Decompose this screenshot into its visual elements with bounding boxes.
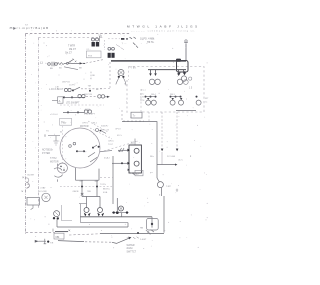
dashed diag to valve [100,141,138,152]
buzzer [54,211,60,217]
long diagonal wire [58,241,84,242]
fan contact cluster [96,129,99,132]
console note dashes [130,37,139,48]
agitate solenoid [119,206,124,211]
dashed wire to console [86,60,104,64]
main bus wire (thick) [111,60,186,62]
push-to-start switch [66,59,74,64]
small connector right of valve [131,173,135,175]
wires under motor [76,168,100,180]
timer bottom bus [176,110,196,112]
svg-text:41C.t: 41C.t [117,134,122,137]
svg-text:TB.TA.: TB.TA. [147,41,155,44]
arrowhead [80,62,83,64]
svg-text:T, .....: T, ..... [122,43,128,45]
wire into console left [105,96,107,98]
dashed divider [60,104,104,106]
connector interlink dashes [104,40,106,50]
timer drop wire 2 [176,112,178,149]
svg-text:TM: TM [88,85,91,87]
svg-text:5000F.r: 5000F.r [101,125,109,128]
svg-text:OB.1: OB.1 [92,122,98,124]
timer top bus [148,69,186,71]
bleach box [131,112,142,118]
dashed fan wire 2 [90,128,112,139]
svg-text:10.PO: 10.PO [69,85,75,87]
timer row2 labels [140,92,145,101]
svg-text:N.C-OFF: N.C-OFF [38,191,48,193]
bus junction bump [176,59,181,62]
timer drop wire 1 [161,112,163,149]
line cord plug [48,62,58,66]
svg-text:OAT.B: OAT.B [73,190,79,193]
svg-text:--------- schematic part listi: --------- schematic part listing sv. [131,29,195,32]
console light [116,70,126,86]
timer top contacts group2 [177,70,188,85]
svg-text:BU: BU [59,68,62,70]
svg-text:HB: HB [140,228,144,230]
switch mark [75,61,77,63]
lid switch circle [42,193,50,201]
header note left [14,24,48,31]
svg-text:MOTOR: MOTOR [50,162,59,164]
extra density labels [55,81,175,173]
plug P at top right [184,40,188,43]
pump contacts row [80,216,152,218]
svg-text:1-4.BT: 1-4.BT [140,239,147,241]
stub wire right of buzzer [62,205,73,221]
svg-text:TW.r: TW.r [61,122,66,125]
valve lower ticks [128,169,130,171]
pump motor 2 [97,208,104,217]
lower bus wire [57,226,128,228]
long wire down right [163,196,165,233]
junction mark [81,193,84,195]
lid switch box [27,197,39,205]
svg-text:3E.r: 3E.r [150,155,154,158]
svg-text:TOP.k: TOP.k [100,184,107,186]
row y=97 contacts [63,95,105,99]
belt dashed line [60,186,112,188]
console note text [140,37,155,44]
svg-text:Ort.C7: Ort.C7 [65,51,72,54]
ground [53,136,58,145]
tick right [176,189,178,192]
cabinet outer border (dashed) [26,34,132,235]
cabinet inner border (dashed) [39,38,104,209]
svg-text:CBt: CBt [55,236,59,239]
dashed BK wire [90,72,92,80]
timer top contacts group1 [149,70,160,85]
wire drop from plug P [185,43,187,60]
timer dashed box [129,67,205,113]
wire to switch [64,62,66,64]
timer motor circle [54,164,63,182]
valve stem [134,139,136,146]
bottom left arrow [35,240,46,242]
wire from console to valve area [122,122,157,178]
svg-text:T.HT.2: T.HT.2 [50,158,57,160]
protector contacts [178,73,186,76]
svg-text:10 PO. 4 MBt: 10 PO. 4 MBt [140,37,155,40]
pressure switch box right [147,218,159,230]
svg-text:1M.CT: 1M.CT [69,49,76,51]
bottom ground mark [44,239,47,244]
water level bus [100,232,164,234]
svg-text:LO.r: LO.r [140,92,145,95]
connector P1 [92,35,103,47]
console step dark dashes [121,38,124,40]
wire to unbalance switch [157,164,175,166]
console step dashes [108,38,120,40]
drive motor circle [60,128,100,168]
svg-text:SWTTCT: SWTTCT [127,251,137,253]
wire switch out [68,62,80,64]
lower double line [81,204,129,223]
lid switch marks [22,177,24,192]
svg-text:rO.10-4: rO.10-4 [50,113,58,116]
water valve box [129,145,141,173]
dashed bottom continue [69,234,100,235]
dispenser box right edge [148,112,150,122]
bottom border tick [52,229,54,232]
svg-text:CRU.r: CRU.r [108,140,114,143]
svg-text:CT.1: CT.1 [140,97,145,99]
wire below unbalance switch [161,188,163,196]
svg-text:T.r: T.r [133,115,136,118]
valve solenoid hot [118,148,139,153]
long vertical from valve area [112,156,114,204]
dashed stub [100,176,113,178]
svg-text:L.CO.3.BF.CT: L.CO.3.BF.CT [49,89,64,91]
svg-text:T-BT: T-BT [166,186,171,188]
svg-text:TO.P: TO.P [108,144,114,146]
svg-text:1M.PO4: 1M.PO4 [62,81,70,83]
svg-text:Pr.B: Pr.B [88,54,93,57]
svg-text:A: A [59,99,61,103]
wires to lower row [82,180,100,207]
svg-text:LTD.SW.BPT: LTD.SW.BPT [66,103,80,105]
pump motor 1 [84,208,91,217]
water temp switch box A [52,97,63,103]
svg-text:BK.R.C: BK.R.C [103,188,110,190]
svg-text:FTrTER: FTrTER [42,152,50,155]
unbalance switch [157,178,159,182]
svg-text:8 9 ..: 8 9 .. [87,49,92,51]
scan speckle [25,30,208,249]
svg-text:prt.mptTrBa|HB: prt.mptTrBa|HB [14,26,48,30]
bottom cluster box [54,233,64,239]
bottom solid segment [55,231,68,233]
small box TW [60,118,72,125]
row y=112 contacts [63,110,92,114]
dashed fan wire 1 [88,121,108,132]
svg-text:.4.5M: .4.5M [84,109,90,111]
console dashed outline left [100,62,127,115]
svg-text:rEVEr: rEVEr [127,247,133,250]
svg-text:T MTR: T MTR [68,46,75,48]
svg-text:4CA.: 4CA. [103,191,108,194]
svg-text:~T 8A.: ~T 8A. [130,67,137,70]
protector terminal circles [181,76,186,81]
svg-text:2C.1-B4: 2C.1-B4 [167,156,176,158]
svg-text:78B: 78B [87,191,91,193]
svg-text:J.C.(: J.C.( [141,90,146,92]
wire BK drop [64,67,78,70]
connector P2 [108,47,115,58]
svg-text:OPTO: OPTO [82,123,88,125]
svg-text:4CA.2: 4CA.2 [104,156,111,159]
timer row2 contacts [145,96,202,106]
svg-text:BU.WT: BU.WT [28,174,35,176]
motor start winding circle [57,163,67,173]
lid switch plunger arcs [26,178,29,189]
dispenser dashed box under timer [122,110,144,121]
svg-text:r.OAT: r.OAT [40,187,46,190]
svg-text:NOTSE.Br: NOTSE.Br [42,149,53,152]
svg-text:OP1O: OP1O [115,129,121,131]
row y=90 mid-left contacts [64,87,104,92]
svg-text:5.10.4.BPT: 5.10.4.BPT [84,114,96,116]
svg-text:L.BI: L.BI [55,86,59,88]
noise filter [48,135,60,137]
valve solenoid cold [112,161,139,166]
line cord resistor squiggle [57,63,63,65]
connector P1 shell [86,51,101,58]
svg-text:1M.POS: 1M.POS [84,94,92,96]
motor protector box [177,61,189,73]
svg-text:TU: TU [46,130,49,132]
svg-text:WATER: WATER [127,244,135,247]
header note left arrow [10,27,16,29]
motor internal contacts [69,142,100,162]
switch labels [65,46,76,55]
svg-text:.B.rC: .B.rC [178,158,183,161]
wire motor to valve [100,151,112,152]
